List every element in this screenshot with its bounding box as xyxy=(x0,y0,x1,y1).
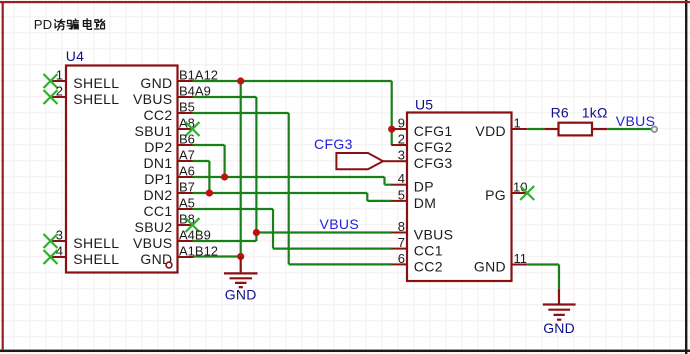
U4 pin B6 DP2 xyxy=(144,132,195,156)
svg-text:PD: PD xyxy=(34,17,52,32)
svg-text:VBUS: VBUS xyxy=(320,216,360,232)
svg-text:CFG1: CFG1 xyxy=(414,123,453,139)
wire VBUS B4A9 horizontal xyxy=(193,96,257,98)
wire DN1 drop to DN2 xyxy=(208,161,210,193)
U4 pin A4B9 VBUS xyxy=(133,228,211,252)
svg-text:CC1: CC1 xyxy=(414,243,443,259)
U4 pin 1 SHELL xyxy=(51,68,120,92)
U4 pin A6 DP1 xyxy=(144,164,195,188)
U4 pin B5 CC2 xyxy=(143,100,194,124)
junction at GND top xyxy=(237,77,244,84)
U5 pin 4 DP xyxy=(391,171,434,195)
U4 pin A5 CC1 xyxy=(143,196,194,220)
junction GND bottom xyxy=(237,253,244,260)
svg-text:CC2: CC2 xyxy=(143,107,172,123)
wire GND net top horizontal xyxy=(193,80,392,82)
sheet border bottom (black) xyxy=(0,350,690,352)
svg-text:GND: GND xyxy=(225,287,257,303)
sheet border top xyxy=(0,1,690,3)
net flag CFG3 xyxy=(314,136,392,169)
U5 pin 3 CFG3 xyxy=(391,148,452,172)
svg-text:DM: DM xyxy=(414,195,436,211)
svg-text:CC2: CC2 xyxy=(414,258,443,274)
sheet border left xyxy=(2,1,4,350)
svg-text:U5: U5 xyxy=(415,96,433,112)
svg-text:1: 1 xyxy=(514,116,521,131)
U5 pin 8 VBUS xyxy=(391,219,453,243)
wire VBUS vertical xyxy=(255,97,257,233)
net port VBUS (right) xyxy=(616,113,657,132)
svg-text:PG: PG xyxy=(485,187,506,203)
svg-text:8: 8 xyxy=(398,219,405,234)
svg-text:VBUS: VBUS xyxy=(414,227,454,243)
U5 pin 6 CC2 xyxy=(391,251,443,275)
wire U5 GND pin to ground xyxy=(527,263,559,265)
U5 pin 5 DM xyxy=(391,187,436,211)
svg-text:R6: R6 xyxy=(551,104,569,120)
U4 pin A8 SBU1 xyxy=(135,116,195,140)
svg-text:CFG3: CFG3 xyxy=(314,136,353,152)
svg-text:SBU1: SBU1 xyxy=(135,123,173,139)
svg-text:SHELL: SHELL xyxy=(73,251,119,267)
IC U5 body xyxy=(407,113,512,282)
no-ERC X on U4 pin B8 xyxy=(186,218,200,232)
U4 pin A1B12 GND xyxy=(140,244,218,268)
svg-text:5: 5 xyxy=(398,187,405,202)
U4 bottom-right marker dot xyxy=(166,262,172,268)
wire DM jog down xyxy=(366,193,368,201)
svg-text:4: 4 xyxy=(398,171,405,186)
svg-text:CFG3: CFG3 xyxy=(414,155,453,171)
wire DN2 B7 horizontal xyxy=(193,192,368,194)
no-ERC X on U4 pin 3 xyxy=(44,234,58,248)
resistor R6 xyxy=(544,123,607,136)
wire DP into U5 pin 4 xyxy=(385,184,392,186)
ground symbol GND1 xyxy=(224,257,258,288)
wire R6 to VBUS port xyxy=(607,128,651,130)
svg-text:GND: GND xyxy=(140,75,172,91)
sheet border right (black) xyxy=(685,0,687,354)
svg-text:DN2: DN2 xyxy=(143,187,172,203)
wire DN1 A7 horizontal xyxy=(193,160,210,162)
no-ERC X on U4 pin 1 xyxy=(44,74,58,88)
U4 pin B7 DN2 xyxy=(143,180,194,204)
svg-text:9: 9 xyxy=(398,116,405,131)
svg-text:1kΩ: 1kΩ xyxy=(582,104,608,120)
wire ground riser xyxy=(558,265,560,289)
junction VBUS xyxy=(253,229,260,236)
U5 pin 11 GND xyxy=(474,251,527,275)
U4 pin B8 SBU2 xyxy=(135,212,195,236)
svg-text:SHELL: SHELL xyxy=(73,91,119,107)
svg-text:U4: U4 xyxy=(66,48,84,64)
U5 pin 1 VDD xyxy=(475,116,527,140)
junction DP xyxy=(221,173,228,180)
U4 pin B4A9 VBUS xyxy=(133,84,211,108)
wire DM into U5 pin 5 xyxy=(367,200,391,202)
svg-text:DP: DP xyxy=(414,179,434,195)
wire GND net left vertical xyxy=(240,81,242,257)
no-ERC X on U4 pin A8 xyxy=(186,122,200,136)
svg-text:SHELL: SHELL xyxy=(73,75,119,91)
no-ERC X on U5 pin 10 xyxy=(520,186,534,200)
no-ERC X on U4 pin 4 xyxy=(44,250,58,264)
U4 pin 3 SHELL xyxy=(51,228,120,252)
wire VDD to R6 xyxy=(527,128,544,130)
wire VBUS to U5 pin 8 xyxy=(256,231,391,233)
svg-text:VBUS: VBUS xyxy=(616,113,656,129)
svg-text:11: 11 xyxy=(514,251,528,266)
svg-text:VBUS: VBUS xyxy=(133,91,173,107)
svg-text:6: 6 xyxy=(398,251,405,266)
svg-text:DP2: DP2 xyxy=(144,139,172,155)
svg-text:SHELL: SHELL xyxy=(73,235,119,251)
junction DM xyxy=(206,189,213,196)
svg-text:SBU2: SBU2 xyxy=(135,219,173,235)
U5 pin 10 PG xyxy=(485,180,527,204)
svg-text:GND: GND xyxy=(474,259,506,275)
U5 pin 9 CFG1 xyxy=(391,116,452,140)
wire DP jog down xyxy=(383,177,385,185)
U5 pin 7 CC1 xyxy=(391,235,443,259)
svg-text:7: 7 xyxy=(398,235,405,250)
wire CC2 to U5 pin 6 xyxy=(289,263,392,265)
IC U4 body xyxy=(66,66,178,273)
wire DP2 B6 horizontal xyxy=(193,144,225,146)
no-ERC X on U4 pin 2 xyxy=(44,90,58,104)
svg-text:3: 3 xyxy=(398,148,405,163)
wire DP1 A6 horizontal xyxy=(193,176,385,178)
wire CC2 B5 horizontal xyxy=(193,112,289,114)
wire VBUS A4B9 riser xyxy=(255,233,257,242)
wire CC1 A5 horizontal xyxy=(193,208,274,210)
svg-text:VDD: VDD xyxy=(475,123,506,139)
junction at CFG1 xyxy=(388,126,395,133)
U4 pin B1A12 GND xyxy=(140,68,218,92)
wire GND net right vertical to CFG2 xyxy=(391,81,393,145)
wire CC1 vertical xyxy=(272,209,274,249)
svg-text:VBUS: VBUS xyxy=(133,235,173,251)
U5 pin 2 CFG2 xyxy=(391,132,452,156)
svg-text:DP1: DP1 xyxy=(144,171,172,187)
svg-text:GND: GND xyxy=(543,320,575,336)
wire GND net bottom horizontal xyxy=(194,255,241,257)
ground symbol GND2 xyxy=(543,289,576,320)
svg-text:DN1: DN1 xyxy=(143,155,172,171)
wire DP2 drop to DP1 xyxy=(224,145,226,177)
U4 pin 2 SHELL xyxy=(51,84,120,108)
svg-text:CFG2: CFG2 xyxy=(414,139,453,155)
wire VBUS A4B9 horizontal xyxy=(193,240,257,242)
title PD诱骗电路 xyxy=(34,17,105,32)
wire CC1 to U5 pin 7 xyxy=(273,248,392,250)
U4 pin 4 SHELL xyxy=(51,244,120,268)
svg-text:2: 2 xyxy=(398,132,405,147)
U4 pin A7 DN1 xyxy=(143,148,194,172)
svg-text:CC1: CC1 xyxy=(143,203,172,219)
wire CC2 vertical xyxy=(288,113,290,264)
